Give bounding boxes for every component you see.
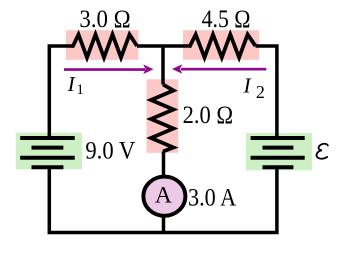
resistor R1 zigzag 3.0 ohm [72, 35, 138, 58]
svg-text:I: I [67, 72, 76, 96]
svg-text:1: 1 [76, 82, 84, 98]
battery B2 highlight [246, 133, 312, 171]
wire: top middle segment [137, 44, 189, 48]
current arrow I1 [64, 64, 154, 74]
battery B1 plate short [32, 146, 64, 150]
svg-text:A: A [155, 182, 172, 208]
battery B2 plate short bottom [263, 165, 294, 169]
svg-text:2.0 Ω: 2.0 Ω [183, 102, 234, 129]
ammeter A circle [143, 177, 185, 216]
wire: middle branch top [161, 46, 165, 85]
wire: top right corner to battery B2 [256, 46, 277, 138]
label EMF script E [317, 144, 328, 159]
battery B1 highlight [16, 133, 82, 170]
svg-text:4.5 Ω: 4.5 Ω [202, 6, 251, 33]
wire: ammeter to bottom wire [162, 217, 166, 233]
resistor R3 highlight [147, 79, 179, 153]
battery B1 plate long top [20, 136, 74, 140]
battery B1 plate long bottom [20, 156, 74, 160]
svg-text:3.0 A: 3.0 A [188, 184, 236, 211]
svg-text:3.0 Ω: 3.0 Ω [79, 6, 130, 33]
current arrow I2 [172, 64, 266, 74]
resistor R3 zigzag 2.0 ohm vertical [151, 85, 174, 152]
wire: bottom loop (battery B1 bottom, bottom wire, battery B2 bottom) [49, 167, 277, 233]
svg-text:9.0 V: 9.0 V [85, 138, 135, 165]
wire: middle branch to ammeter [162, 152, 166, 179]
svg-text:2: 2 [256, 82, 265, 102]
wire: left branch top (battery top to top-left corner to R1) [49, 46, 71, 138]
resistor R2 zigzag 4.5 ohm [189, 35, 256, 58]
resistor R2 highlight [183, 30, 259, 60]
svg-text:I: I [243, 74, 252, 98]
battery B2 plate short [263, 146, 294, 150]
battery B2 plate long top [251, 136, 305, 140]
battery B2 plate long bottom [251, 156, 305, 160]
battery B1 plate short bottom [32, 165, 64, 169]
resistor R1 highlight [66, 30, 139, 60]
